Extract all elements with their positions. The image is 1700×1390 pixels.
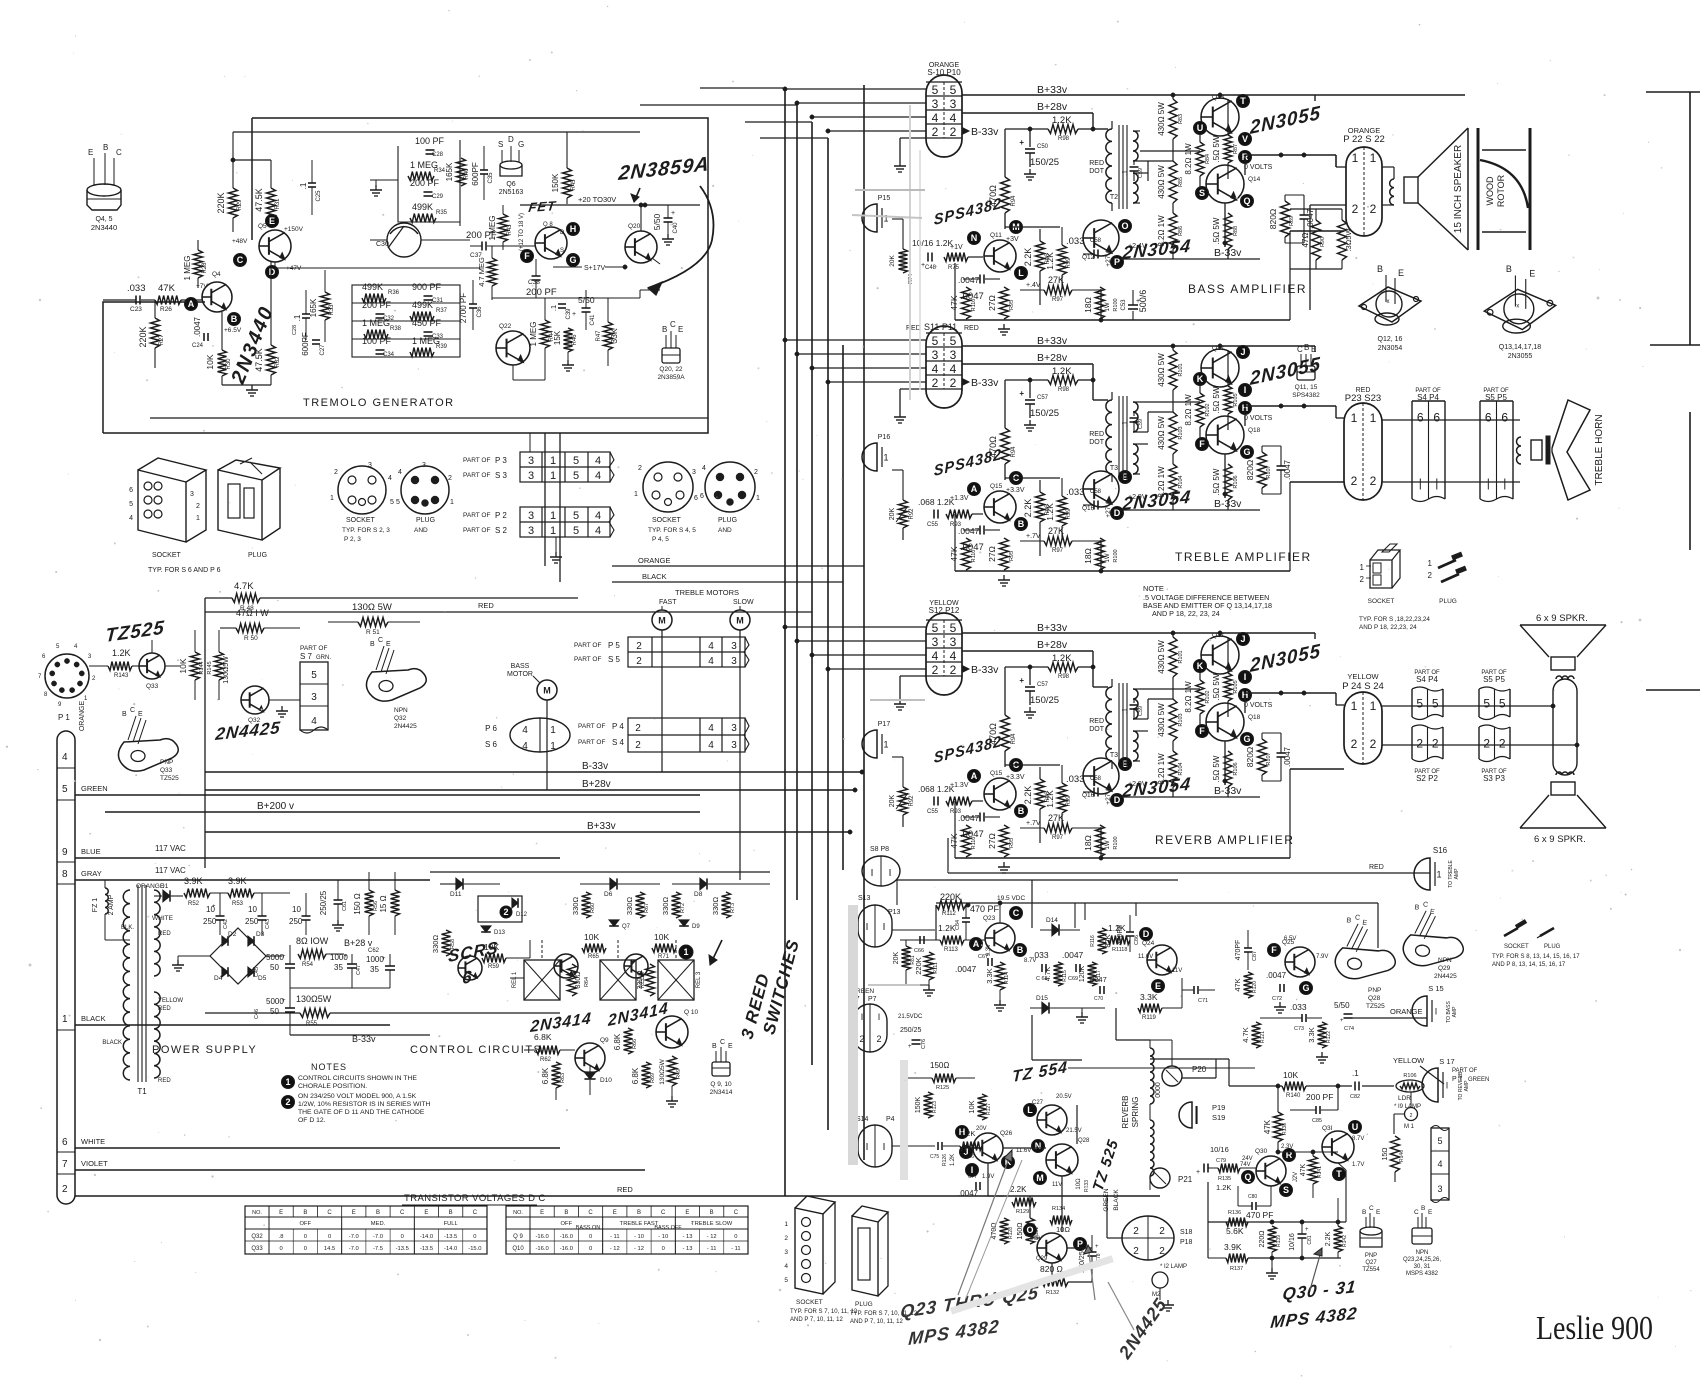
badge J xyxy=(1237,346,1250,359)
svg-text:R125: R125 xyxy=(936,1085,949,1091)
round plug P23 typ xyxy=(401,466,449,514)
svg-text:.033: .033 xyxy=(1066,487,1085,498)
svg-text:2.2K: 2.2K xyxy=(1023,786,1033,805)
svg-text:R27: R27 xyxy=(159,334,165,346)
svg-text:PNP: PNP xyxy=(1368,987,1381,994)
svg-text:TYP. FOR S 8, 13, 14, 15, 16,: TYP. FOR S 8, 13, 14, 15, 16, 17 xyxy=(1492,954,1580,960)
svg-text:430Ω 5W: 430Ω 5W xyxy=(1157,416,1166,450)
svg-text:1: 1 xyxy=(550,725,556,736)
svg-text:0: 0 xyxy=(589,1234,592,1240)
svg-text:PART OF: PART OF xyxy=(300,645,327,652)
svg-text:BLACK: BLACK xyxy=(642,572,667,581)
svg-text:C70: C70 xyxy=(1094,996,1103,1002)
svg-text:D15: D15 xyxy=(1036,995,1048,1002)
svg-text:M: M xyxy=(736,616,744,626)
ladder wires treble xyxy=(1172,346,1174,350)
resistor R86 8.2Ω 1W bass xyxy=(1169,213,1177,249)
scan smudge S10 xyxy=(909,105,911,400)
svg-text:1.2K: 1.2K xyxy=(1045,790,1055,808)
svg-text:6.8K: 6.8K xyxy=(534,1032,552,1042)
svg-text:D: D xyxy=(560,230,565,236)
svg-text:C50: C50 xyxy=(1037,144,1049,150)
svg-text:K: K xyxy=(1197,661,1204,671)
wire input treble xyxy=(892,469,903,471)
svg-text:REL 1: REL 1 xyxy=(512,971,518,988)
diode bridge D2-D5 xyxy=(210,928,266,984)
svg-text:200 PF: 200 PF xyxy=(362,300,392,310)
svg-text:R119: R119 xyxy=(1142,1015,1157,1021)
transistor Q29b xyxy=(1037,1233,1067,1263)
svg-text:Q5: Q5 xyxy=(258,223,267,230)
svg-text:2: 2 xyxy=(636,656,642,667)
svg-text:5: 5 xyxy=(950,83,957,97)
svg-text:OFF: OFF xyxy=(300,1221,312,1227)
svg-text:5: 5 xyxy=(932,334,939,348)
svg-text:250/25: 250/25 xyxy=(900,1027,922,1034)
wires P5 P4 tables xyxy=(659,667,661,718)
connector part of S4 P4 treble xyxy=(1411,401,1413,499)
svg-text:6.5V: 6.5V xyxy=(1284,936,1296,942)
ground rail treble xyxy=(1003,575,1005,580)
wires output bass xyxy=(1219,95,1221,98)
svg-text:5: 5 xyxy=(573,470,579,482)
handwritten 2N4425 osc xyxy=(214,717,282,744)
svg-text:AND: AND xyxy=(718,527,732,534)
svg-text:R95: R95 xyxy=(1009,300,1015,310)
svg-text:R102: R102 xyxy=(1205,690,1211,703)
svg-text:R73: R73 xyxy=(730,903,736,913)
svg-text:1.2K: 1.2K xyxy=(1052,653,1072,664)
svg-text:Q9: Q9 xyxy=(600,1037,609,1044)
connector part of S4 P4 reverb xyxy=(1411,689,1413,717)
ladder wires bass xyxy=(1172,95,1174,99)
svg-text:130Ω5W: 130Ω5W xyxy=(659,1058,666,1084)
svg-text:F: F xyxy=(1271,945,1277,955)
resistor R31 47.5K xyxy=(254,188,264,212)
connector S-10 P10 xyxy=(926,75,962,157)
svg-text:* I2 LAMP: * I2 LAMP xyxy=(1160,1264,1187,1270)
svg-text:B+28v: B+28v xyxy=(1037,639,1068,651)
svg-text:.1: .1 xyxy=(549,305,558,311)
svg-text:Leslie 900: Leslie 900 xyxy=(1536,1310,1653,1347)
resistor R101 430Ω 5W treble xyxy=(1169,350,1177,390)
svg-text:C87: C87 xyxy=(1252,951,1258,961)
svg-text:4: 4 xyxy=(595,455,601,467)
svg-text:4: 4 xyxy=(708,723,714,734)
svg-text:S 7: S 7 xyxy=(300,652,313,661)
socket iso S6 xyxy=(138,470,186,542)
svg-text:2N5163: 2N5163 xyxy=(499,189,524,196)
svg-text:T3: T3 xyxy=(1110,752,1118,759)
svg-text:330Ω: 330Ω xyxy=(711,897,720,916)
svg-text:3: 3 xyxy=(731,656,737,667)
svg-text:S 6: S 6 xyxy=(485,740,498,749)
svg-text:Q: Q xyxy=(1243,196,1250,206)
svg-text:B: B xyxy=(662,325,667,334)
badge B xyxy=(228,313,241,326)
svg-text:2: 2 xyxy=(1410,1113,1413,1119)
transistor Q15 reverb xyxy=(984,778,1016,810)
badge A xyxy=(968,483,981,496)
svg-text:D6: D6 xyxy=(604,891,613,898)
badge C q23 xyxy=(1010,907,1023,920)
svg-text:B: B xyxy=(1421,1205,1425,1212)
svg-text:SOCKET: SOCKET xyxy=(346,517,376,524)
svg-text:5: 5 xyxy=(62,784,68,795)
svg-text:.5Ω 5W: .5Ω 5W xyxy=(1212,135,1221,162)
resistor R66 6.8K xyxy=(624,1028,633,1054)
svg-text:-13.5: -13.5 xyxy=(396,1246,409,1252)
svg-text:15 INCH SPEAKER: 15 INCH SPEAKER xyxy=(1453,145,1464,233)
svg-text:E: E xyxy=(138,711,143,718)
svg-text:C80: C80 xyxy=(1248,1194,1257,1200)
badge A q23 xyxy=(970,938,983,951)
svg-text:B+28v: B+28v xyxy=(582,779,611,790)
svg-text:20K: 20K xyxy=(893,951,900,964)
svg-text:J: J xyxy=(1240,634,1245,644)
svg-text:130Ω5W: 130Ω5W xyxy=(296,994,332,1004)
svg-text:+: + xyxy=(1305,1227,1309,1233)
svg-text:2N3440: 2N3440 xyxy=(91,223,117,232)
wire tremolo out drop xyxy=(544,433,546,566)
motor fast xyxy=(652,610,672,630)
svg-text:P16: P16 xyxy=(878,434,891,441)
svg-text:.0047: .0047 xyxy=(1283,746,1292,767)
badge C xyxy=(234,254,247,267)
resistor R49 130ohm xyxy=(668,1056,677,1086)
transistor Q10 xyxy=(656,1016,688,1048)
svg-text:150/25: 150/25 xyxy=(1030,408,1059,419)
svg-text:RED: RED xyxy=(1089,718,1104,725)
svg-text:RED: RED xyxy=(478,601,494,610)
svg-text:0000: 0000 xyxy=(1155,1082,1162,1098)
wire bottom rail bass xyxy=(955,319,1290,321)
resistor R121 4.7K xyxy=(1252,1022,1261,1048)
svg-text:5: 5 xyxy=(932,621,939,635)
svg-text:BASS AMPLIFIER: BASS AMPLIFIER xyxy=(1188,282,1307,296)
transistor Q8 fet xyxy=(535,227,567,259)
svg-text:2: 2 xyxy=(950,376,957,390)
capacitor C56 reverb xyxy=(979,813,981,822)
svg-text:R139: R139 xyxy=(1276,1235,1282,1247)
svg-text:47K: 47K xyxy=(1263,1119,1272,1134)
svg-text:RED: RED xyxy=(964,325,979,332)
resistor R73 330 xyxy=(722,892,731,918)
svg-text:R98: R98 xyxy=(1058,387,1070,393)
svg-text:4: 4 xyxy=(522,741,528,752)
svg-text:R39: R39 xyxy=(436,344,448,350)
svg-text:10K: 10K xyxy=(967,1100,976,1113)
svg-text:3: 3 xyxy=(1437,1184,1442,1194)
svg-text:R65: R65 xyxy=(588,954,600,960)
wire q26 q28 xyxy=(1003,1147,1046,1149)
wire t1 primary xyxy=(122,939,130,941)
svg-text:10/16 1.2K: 10/16 1.2K xyxy=(912,238,953,248)
svg-text:PART OF: PART OF xyxy=(1452,1068,1478,1074)
resistor R104 8.2Ω 1W treble xyxy=(1169,464,1177,500)
transformer T1 xyxy=(123,890,130,1080)
svg-text:R145: R145 xyxy=(207,661,213,674)
capacitor C61 250/25 xyxy=(319,890,328,915)
resistor R99 1.2K treble xyxy=(1058,496,1067,526)
connector P22 S22 xyxy=(1346,147,1382,236)
svg-text:1W: 1W xyxy=(1105,840,1111,849)
svg-text:3: 3 xyxy=(932,348,939,362)
resistor R87 .5Ω 5W bass xyxy=(1224,135,1232,163)
svg-text:WHITE: WHITE xyxy=(152,915,174,922)
svg-text:R88: R88 xyxy=(1233,226,1239,236)
svg-text:C61: C61 xyxy=(342,901,348,911)
svg-text:6: 6 xyxy=(1433,411,1440,425)
capacitor C56 treble xyxy=(979,526,981,535)
svg-text:R126: R126 xyxy=(962,1154,974,1160)
svg-text:x: x xyxy=(1516,304,1519,310)
vtext 12to18v xyxy=(519,213,525,251)
svg-text:B: B xyxy=(1377,264,1383,274)
svg-text:C55: C55 xyxy=(927,522,939,528)
badge I xyxy=(1239,671,1252,684)
resistor R107 820ohm treble xyxy=(1258,452,1267,488)
svg-text:2: 2 xyxy=(1133,1246,1139,1257)
svg-text:C25: C25 xyxy=(316,190,322,202)
resistor R42 4.7MEG xyxy=(477,257,486,287)
svg-text:BLACK: BLACK xyxy=(81,1014,106,1023)
wire B+33v bass xyxy=(962,94,1465,96)
svg-text:0: 0 xyxy=(401,1234,404,1240)
svg-text:- 13: - 13 xyxy=(682,1246,692,1252)
diode D14 xyxy=(1040,929,1052,931)
svg-text:AND P 7, 10, 11, 12: AND P 7, 10, 11, 12 xyxy=(850,1319,903,1325)
resistor R107 820ohm reverb xyxy=(1258,739,1267,775)
svg-text:C72: C72 xyxy=(1272,996,1282,1002)
resistor R95 27ohm treble xyxy=(1000,538,1009,570)
transformer T2 xyxy=(1106,129,1112,203)
svg-text:R103: R103 xyxy=(1178,426,1184,439)
resistor R138 47K xyxy=(1277,1086,1279,1112)
svg-text:0: 0 xyxy=(589,1246,592,1252)
svg-text:+150V: +150V xyxy=(284,226,304,233)
svg-text:820Ω: 820Ω xyxy=(1245,747,1255,768)
svg-text:CONTROL CIRCUITS: CONTROL CIRCUITS xyxy=(410,1044,542,1056)
svg-text:R1118: R1118 xyxy=(1112,947,1127,953)
svg-text:S 5: S 5 xyxy=(608,655,621,664)
svg-text:R85: R85 xyxy=(1178,177,1184,187)
svg-text:21.5V: 21.5V xyxy=(1066,1128,1082,1134)
svg-text:15 Ω: 15 Ω xyxy=(379,895,388,912)
svg-text:10Ω: 10Ω xyxy=(1056,1225,1070,1234)
transistor Q32 xyxy=(241,686,269,714)
connector part of S2 P2 xyxy=(1411,727,1413,759)
diode D6 xyxy=(610,878,617,889)
badge K q26 xyxy=(1002,1156,1015,1169)
wires tremolo mid xyxy=(274,262,276,268)
svg-text:REVERB: REVERB xyxy=(1121,1096,1130,1129)
svg-text:Q32: Q32 xyxy=(251,1234,263,1240)
svg-text:3: 3 xyxy=(692,469,696,476)
label wood rotor xyxy=(1485,176,1495,205)
svg-text:GRAY: GRAY xyxy=(81,869,102,878)
badge E treble xyxy=(1119,471,1132,484)
svg-text:Q30: Q30 xyxy=(1255,1148,1268,1155)
resistor R116 82K xyxy=(1098,928,1107,954)
svg-text:5: 5 xyxy=(390,499,394,506)
svg-text:2: 2 xyxy=(932,376,939,390)
svg-text:B: B xyxy=(1304,343,1309,352)
connector S8 P8 xyxy=(862,856,900,886)
connector P19 S19 xyxy=(1179,1102,1192,1128)
svg-text:330Ω: 330Ω xyxy=(661,897,670,916)
svg-text:.1: .1 xyxy=(1122,708,1129,714)
svg-text:PART OF: PART OF xyxy=(463,472,490,479)
svg-text:5: 5 xyxy=(932,83,939,97)
svg-text:+: + xyxy=(671,210,675,217)
svg-text:S11 P11: S11 P11 xyxy=(924,322,957,332)
svg-text:0: 0 xyxy=(734,1234,737,1240)
wires control circuits xyxy=(445,956,447,1013)
handwritten 2N3054 reverb xyxy=(1121,774,1193,801)
svg-text:200 PF: 200 PF xyxy=(1306,1092,1333,1102)
svg-text:C: C xyxy=(1414,1209,1419,1216)
svg-text:S 17: S 17 xyxy=(1439,1057,1454,1066)
svg-text:P18: P18 xyxy=(1180,1239,1193,1246)
svg-text:5/50: 5/50 xyxy=(652,213,662,230)
svg-text:R142: R142 xyxy=(1342,1235,1348,1247)
svg-text:I: I xyxy=(889,868,892,879)
svg-text:470Ω: 470Ω xyxy=(991,1223,998,1240)
svg-text:TYP. FOR S 7, 10, 11, 12: TYP. FOR S 7, 10, 11, 12 xyxy=(790,1309,858,1315)
svg-text:RED: RED xyxy=(617,1185,633,1194)
badge D treble xyxy=(1111,507,1124,520)
svg-text:250: 250 xyxy=(203,917,217,926)
svg-text:B: B xyxy=(710,1210,714,1216)
svg-text:S 4: S 4 xyxy=(612,738,625,747)
clamp transistor Q28 mount xyxy=(1333,912,1401,984)
svg-text:Q20: Q20 xyxy=(628,223,641,230)
svg-text:Q3I: Q3I xyxy=(1322,1125,1333,1132)
svg-text:C: C xyxy=(130,707,135,714)
badge G xyxy=(1241,446,1254,459)
connector P1x reverb xyxy=(862,730,877,758)
capacitor C24 .0047 xyxy=(193,316,202,337)
wire bottom rail reverb xyxy=(955,857,1290,859)
svg-text:P 6: P 6 xyxy=(485,724,497,733)
svg-text:2: 2 xyxy=(1133,1226,1139,1237)
transistor Q23 xyxy=(985,923,1015,953)
svg-text:2: 2 xyxy=(1370,737,1377,751)
svg-text:C29: C29 xyxy=(432,194,444,200)
svg-text:C48: C48 xyxy=(925,265,937,271)
svg-text:C69: C69 xyxy=(1068,976,1078,982)
badge E reverb xyxy=(1119,758,1132,771)
svg-text:BASS: BASS xyxy=(511,663,530,670)
svg-text:C46: C46 xyxy=(254,1009,260,1019)
svg-text:- 12: - 12 xyxy=(707,1234,717,1240)
svg-text:ORANGE: ORANGE xyxy=(79,701,86,732)
badge B xyxy=(1015,518,1028,531)
svg-text:B: B xyxy=(1018,519,1025,529)
svg-text:BLACK: BLACK xyxy=(102,1040,122,1046)
svg-text:+: + xyxy=(1196,1169,1200,1176)
svg-text:1.2K: 1.2K xyxy=(1108,923,1126,933)
svg-text:NPN: NPN xyxy=(1416,1250,1429,1256)
resistor R97 27K reverb xyxy=(1020,827,1044,829)
svg-text:130Ω 5W: 130Ω 5W xyxy=(352,602,392,613)
svg-text:R120: R120 xyxy=(1252,981,1258,993)
capacitor C57 150/25 treble xyxy=(1029,380,1031,398)
svg-text:2.2K: 2.2K xyxy=(1023,499,1033,518)
svg-text:T1: T1 xyxy=(137,1087,147,1096)
transistor Q27b xyxy=(1037,1105,1067,1135)
svg-text:PART OF: PART OF xyxy=(463,457,490,464)
svg-text:35: 35 xyxy=(334,963,343,972)
svg-text:C86: C86 xyxy=(1134,935,1140,945)
resistor R105 .5Ω 5W reverb xyxy=(1224,673,1232,701)
svg-text:R92: R92 xyxy=(909,508,915,520)
svg-text:M 1: M 1 xyxy=(1404,1124,1415,1130)
svg-text:2: 2 xyxy=(636,641,642,652)
svg-text:R133: R133 xyxy=(1084,1180,1090,1192)
badge K xyxy=(1194,373,1207,386)
svg-text:+: + xyxy=(1095,1244,1099,1250)
round socket typ S45 a xyxy=(643,462,693,512)
svg-text:BASS ON: BASS ON xyxy=(576,1225,600,1231)
svg-text:Q12: Q12 xyxy=(1082,254,1095,261)
svg-text:27K: 27K xyxy=(1048,526,1064,536)
svg-text:NOTE ·: NOTE · xyxy=(1143,584,1168,593)
svg-text:R137: R137 xyxy=(1230,1266,1243,1272)
svg-text:E: E xyxy=(352,1210,356,1216)
svg-text:4.7K: 4.7K xyxy=(1045,966,1052,981)
svg-text:6 x 9 SPKR.: 6 x 9 SPKR. xyxy=(1536,613,1588,624)
svg-text:R32: R32 xyxy=(275,356,281,368)
svg-text:R94: R94 xyxy=(1011,446,1017,458)
svg-text:+: + xyxy=(1019,138,1024,147)
svg-text:B-33v: B-33v xyxy=(1214,498,1242,510)
svg-text:2: 2 xyxy=(1351,737,1358,751)
svg-text:1.2K: 1.2K xyxy=(112,648,131,658)
svg-text:250: 250 xyxy=(289,917,303,926)
diode D11 xyxy=(456,878,463,889)
svg-text:I: I xyxy=(878,1012,881,1022)
transistor Q4 xyxy=(202,282,232,312)
diode D15 xyxy=(1030,1007,1042,1009)
svg-text:6: 6 xyxy=(1501,411,1508,425)
svg-text:E: E xyxy=(279,1210,283,1216)
connector S14 P14 xyxy=(858,1125,892,1167)
capacitor C81 10/16 xyxy=(1298,1233,1307,1235)
resistor R85 430Ω 5W bass xyxy=(1169,161,1177,203)
svg-text:5: 5 xyxy=(1416,696,1423,710)
svg-text:2N3055: 2N3055 xyxy=(1508,353,1533,360)
svg-text:R146: R146 xyxy=(1399,1150,1405,1162)
frame right top xyxy=(1689,92,1691,345)
svg-text:RED: RED xyxy=(1369,864,1384,871)
resistor R67 330 xyxy=(636,892,645,918)
svg-text:.0047: .0047 xyxy=(193,316,202,337)
svg-text:E: E xyxy=(1428,1209,1433,1216)
svg-text:F: F xyxy=(1199,439,1205,449)
svg-text:I: I xyxy=(861,1012,864,1022)
svg-text:R63: R63 xyxy=(560,1073,566,1083)
svg-text:.1: .1 xyxy=(1122,170,1129,176)
svg-text:+.7V: +.7V xyxy=(1026,820,1041,827)
svg-text:1.2K: 1.2K xyxy=(950,1154,956,1166)
resistor R99 1.2K bass xyxy=(1058,245,1067,275)
resistor R56 150ohm xyxy=(353,893,362,915)
svg-text:Q29: Q29 xyxy=(1438,965,1451,972)
svg-text:|: | xyxy=(1487,476,1490,490)
svg-text:2N3859A: 2N3859A xyxy=(657,374,685,381)
